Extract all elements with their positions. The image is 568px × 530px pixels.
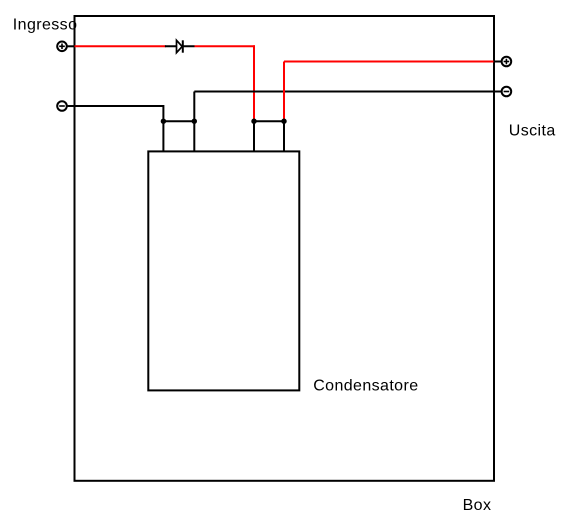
wire: red from box edge to diode anode [75, 45, 167, 47]
terminal: input - [57, 101, 67, 111]
wire: black segment through diode [165, 45, 195, 47]
svg-text:Condensatore: Condensatore [313, 377, 418, 394]
wire: link node A to node D [254, 120, 284, 122]
wire: input - terminal to corner (black) [67, 105, 164, 107]
svg-text:Ingresso: Ingresso [13, 17, 78, 34]
node B junction dot [161, 119, 166, 124]
node A junction dot [251, 119, 256, 124]
wire: black horizontal to output - terminal [194, 91, 501, 93]
node D junction dot [281, 119, 286, 124]
wire: capacitor lead 3 [253, 121, 255, 152]
wire: red vertical up from node D [283, 62, 285, 122]
wire: capacitor lead 1 [162, 121, 164, 152]
terminal: output + [502, 57, 512, 67]
svg-text:Box: Box [463, 497, 492, 514]
node C junction dot [192, 119, 197, 124]
terminal: output - [502, 87, 512, 97]
capacitor (Condensatore) body [148, 151, 299, 390]
wire: capacitor lead 4 [283, 121, 285, 152]
diode D1 [177, 40, 183, 52]
terminal: input + [57, 42, 67, 52]
wire: red from diode cathode to corner [195, 45, 256, 47]
wire: capacitor lead 2 [193, 121, 195, 152]
wire: output + terminal stub (black) [494, 61, 502, 63]
wire: input + terminal stub (black) [67, 45, 76, 47]
wire: black vertical up from node C [193, 92, 195, 122]
wire: red vertical down to node A [253, 45, 255, 121]
wire: black vertical down to node B [162, 105, 164, 121]
box (enclosure outline) [75, 16, 495, 481]
svg-text:Uscita: Uscita [509, 122, 556, 139]
wire: red horizontal to box edge [284, 61, 494, 63]
wire: link node B to node C [163, 120, 194, 122]
